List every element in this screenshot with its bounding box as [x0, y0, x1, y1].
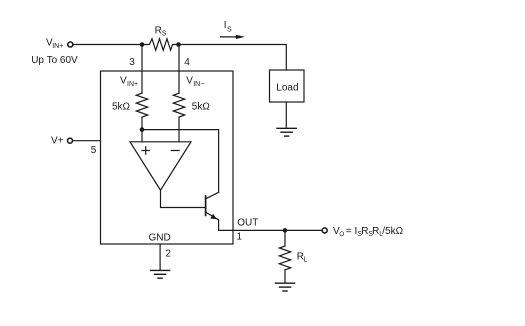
wire left resistor to op-amp + input [141, 117, 143, 142]
IC box U1 [101, 71, 234, 244]
node D (output junction) [283, 228, 288, 233]
svg-text:GND: GND [149, 232, 171, 243]
terminal V+ [68, 138, 73, 143]
svg-text:Up To 60V: Up To 60V [31, 55, 78, 66]
wire node B to load corner [179, 45, 287, 71]
svg-text:V: V [186, 76, 193, 87]
svg-text:3: 3 [129, 57, 135, 68]
wire right resistor to op-amp - input [178, 117, 180, 142]
svg-text:5kΩ: 5kΩ [192, 101, 211, 112]
label IS [224, 20, 232, 33]
svg-text:IN+: IN+ [52, 43, 63, 50]
svg-text:=: = [346, 226, 352, 237]
terminal VO [322, 228, 327, 233]
resistor 5k right [173, 93, 184, 117]
ground (load) [277, 128, 296, 136]
svg-text:V: V [120, 76, 127, 87]
svg-text:S: S [162, 31, 167, 38]
wire VIN+ to node A [73, 44, 142, 46]
wire pin 3 into box [141, 45, 143, 94]
resistor RL [279, 246, 290, 270]
emitter arrow [210, 214, 217, 219]
svg-text:Load: Load [276, 82, 298, 93]
svg-text:/5kΩ: /5kΩ [382, 226, 403, 237]
arrow IS current direction [221, 36, 237, 38]
svg-text:2: 2 [165, 248, 171, 259]
wire node C to collector [142, 130, 219, 193]
wire pin 2 to ground [159, 244, 161, 270]
ground (IC) [151, 270, 170, 278]
wire RL to ground [284, 270, 286, 283]
svg-text:5kΩ: 5kΩ [112, 101, 131, 112]
ground (RL) [275, 283, 294, 291]
label VIN+ internal [120, 76, 138, 88]
wire OUT [219, 229, 322, 231]
wire op-amp output to base [161, 190, 205, 207]
wire pin 4 into box [178, 45, 180, 94]
label VIN+ input [46, 38, 63, 50]
svg-text:V+: V+ [51, 135, 64, 146]
svg-text:1: 1 [237, 231, 243, 242]
svg-text:5: 5 [91, 145, 97, 156]
plus sign [142, 147, 149, 154]
svg-text:O: O [339, 231, 344, 238]
node B (junction pin 4) [176, 42, 181, 47]
node A (junction pin 3) [140, 42, 145, 47]
wire load to ground [285, 102, 287, 128]
label VO formula [333, 226, 404, 238]
terminal VIN+ [68, 42, 73, 47]
emitter [206, 212, 219, 230]
resistor RS [142, 39, 179, 50]
resistor 5k left [136, 93, 147, 117]
label RL [297, 251, 308, 263]
label RS [155, 25, 167, 37]
node C (junction + input) [140, 127, 145, 132]
transistor Q1 [205, 196, 207, 215]
load box [270, 70, 305, 102]
svg-text:IN−: IN− [193, 81, 204, 88]
svg-text:R: R [155, 25, 162, 36]
svg-text:L: L [303, 257, 307, 264]
wire V+ to pin 5 [73, 140, 101, 142]
op-amp U1A [130, 142, 191, 190]
label VIN- internal [186, 76, 204, 88]
collector [206, 192, 219, 199]
svg-text:OUT: OUT [237, 217, 258, 228]
svg-text:S: S [227, 26, 232, 33]
wire node D to RL [284, 230, 286, 246]
minus sign [171, 150, 179, 152]
svg-text:IN+: IN+ [127, 81, 138, 88]
svg-text:4: 4 [184, 57, 190, 68]
